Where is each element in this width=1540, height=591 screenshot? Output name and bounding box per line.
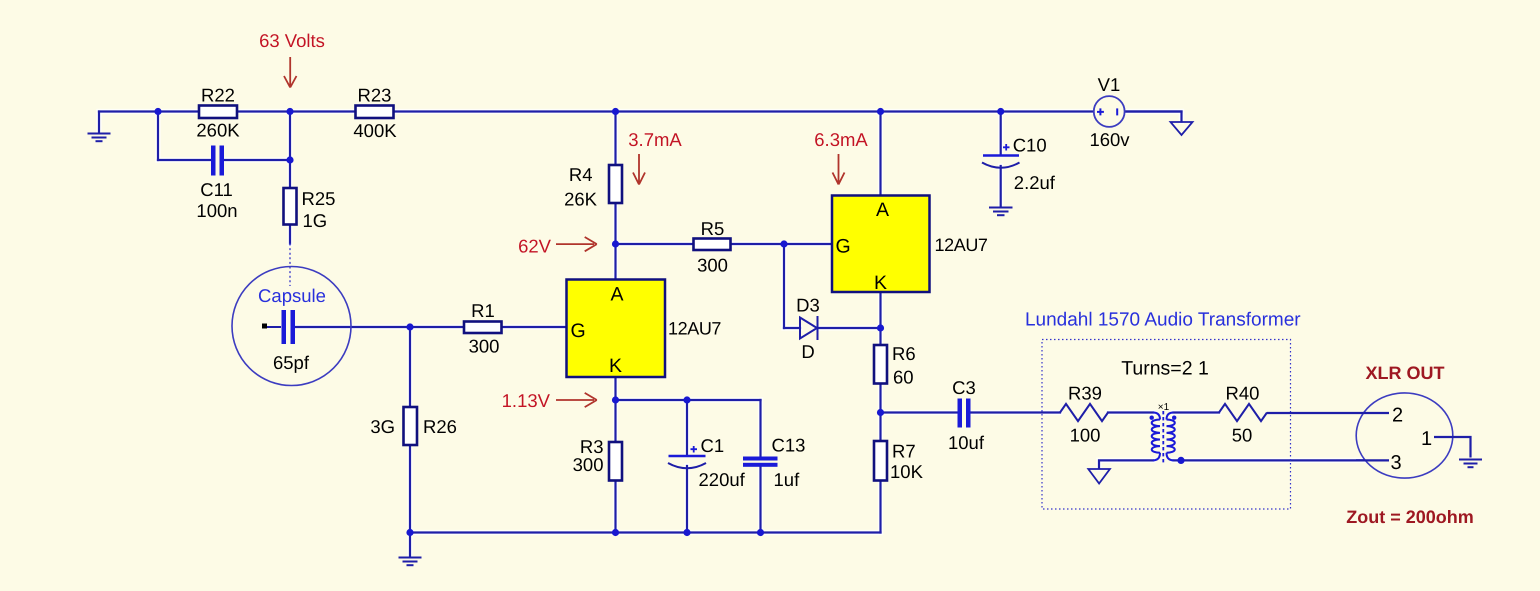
svg-text:R5: R5 (701, 218, 725, 239)
svg-text:60: 60 (893, 367, 914, 388)
node D rail U2 (877, 108, 884, 115)
node E rail C10 (997, 108, 1004, 115)
wire C3 to R39 (971, 411, 1061, 413)
resistor R40 (1219, 383, 1267, 446)
svg-text:K: K (874, 272, 887, 294)
wire transformer to R40 (1174, 411, 1220, 413)
resistor R6 (874, 343, 916, 388)
wire C13 top (759, 400, 761, 457)
wire capsule to R1 (296, 326, 465, 328)
capsule terminal square (262, 324, 267, 329)
capacitor C10 electrolytic (982, 135, 1056, 194)
svg-text:10uf: 10uf (948, 432, 985, 453)
annotation 62V (518, 236, 597, 257)
svg-text:300: 300 (469, 336, 500, 357)
node I R5 U2G (780, 240, 787, 247)
ground triangle top right (1171, 122, 1193, 135)
wire C10 bottom (1000, 166, 1002, 206)
resistor R3 (573, 436, 622, 481)
capacitor C13 (743, 435, 805, 491)
svg-text:6.3mA: 6.3mA (814, 129, 868, 150)
wire diode to node J (818, 327, 881, 329)
transformer phase dot right (1172, 416, 1176, 420)
wire bottom rail (410, 531, 881, 533)
svg-text:G: G (836, 236, 851, 258)
wire R3 to bottom rail (614, 481, 616, 533)
svg-text:R7: R7 (892, 441, 916, 462)
wire XLR pin3 lead (1356, 459, 1389, 461)
decorative white halo under wires (89, 112, 1390, 566)
resistor R39 (1060, 383, 1108, 446)
svg-text:1.13V: 1.13V (502, 390, 551, 411)
svg-text:K: K (609, 355, 622, 377)
annotation 63 Volts (259, 30, 325, 88)
svg-text:10K: 10K (890, 461, 924, 482)
svg-text:R39: R39 (1068, 383, 1102, 404)
capacitor C3 (948, 377, 985, 453)
wire U2 K down (879, 292, 881, 345)
wire V1 right to ground (1125, 112, 1182, 122)
svg-text:3G: 3G (370, 416, 395, 437)
wire XLR pin2 lead (1267, 412, 1389, 414)
svg-text:260K: 260K (196, 120, 240, 141)
wire left ground stub (98, 112, 100, 133)
wire U2 A up (879, 112, 881, 196)
wire node B drop (289, 112, 291, 161)
svg-text:62V: 62V (518, 236, 552, 257)
node J U2K diode (877, 324, 884, 331)
resistor R5 (694, 218, 731, 276)
wire R26 to bottom rail (409, 445, 411, 533)
svg-text:300: 300 (573, 454, 604, 475)
svg-text:400K: 400K (353, 120, 397, 141)
wire C10 top (1000, 112, 1002, 155)
wire R1 to U1 G (502, 326, 568, 328)
svg-text:D3: D3 (796, 295, 820, 316)
ground earth bottom (400, 558, 421, 566)
wire C11 branch right (224, 159, 290, 161)
ground earth C10 (990, 208, 1012, 216)
wire top rail (99, 110, 1182, 112)
svg-text:R6: R6 (892, 343, 916, 364)
node bottom rail C1 (683, 529, 690, 536)
wire R4 top to rail (614, 112, 616, 166)
resistor R1 (464, 300, 502, 357)
wire C13 bottom (759, 467, 761, 533)
junction dot transformer secondary (1177, 457, 1184, 464)
svg-text:R26: R26 (423, 416, 457, 437)
svg-text:12AU7: 12AU7 (935, 235, 988, 255)
svg-text:Lundahl 1570 Audio Transformer: Lundahl 1570 Audio Transformer (1025, 310, 1301, 331)
XLR connector circle (1267, 393, 1482, 478)
wire R6 to node K (879, 384, 881, 442)
wire U1 K down (614, 377, 616, 442)
wire node A drop (157, 112, 159, 161)
node bottom rail left (406, 529, 413, 536)
svg-text:R22: R22 (201, 85, 235, 106)
svg-text:3: 3 (1390, 452, 1401, 474)
node L 1.13V (612, 396, 619, 403)
wire transformer secondary bottom left (1099, 460, 1153, 468)
svg-text:C1: C1 (701, 435, 725, 456)
transformer core dashed line (1162, 411, 1164, 464)
capacitor element 65pf (282, 310, 287, 344)
svg-text:2.2uf: 2.2uf (1014, 172, 1056, 193)
svg-text:65pf: 65pf (273, 352, 310, 373)
resistor R22 (196, 85, 240, 141)
dotted lead R25 to capsule (289, 244, 291, 287)
svg-text:A: A (876, 199, 889, 221)
wire C1 bottom (686, 466, 688, 533)
svg-text:C10: C10 (1013, 135, 1047, 156)
svg-text:R25: R25 (302, 188, 336, 209)
resistor R26 (370, 407, 457, 445)
annotation 3.7mA (628, 129, 682, 185)
svg-text:R23: R23 (358, 85, 392, 106)
wire R7 to bottom rail (879, 481, 881, 533)
voltage source V1 (1089, 74, 1130, 150)
wire F to R25 (289, 160, 291, 188)
svg-text:R40: R40 (1226, 383, 1260, 404)
svg-text:V1: V1 (1098, 74, 1121, 95)
resistor R23 (353, 85, 397, 142)
svg-text:×1: ×1 (1158, 402, 1170, 413)
wire node I to diode (784, 327, 800, 329)
wire node K to C3 (881, 411, 958, 413)
resistor R25 (284, 188, 336, 231)
svg-text:1G: 1G (303, 210, 328, 231)
node K R6 C3 (877, 409, 884, 416)
node A (154, 108, 161, 115)
annotation 1.13V (502, 390, 597, 411)
svg-text:A: A (610, 284, 623, 306)
wire node G vertical (409, 327, 411, 407)
ground earth left (89, 134, 110, 142)
node M C1 top (683, 396, 690, 403)
svg-text:1uf: 1uf (774, 469, 801, 490)
capacitor C1 electrolytic (668, 435, 746, 490)
svg-text:C11: C11 (200, 179, 233, 200)
annotation 6.3mA (814, 129, 868, 185)
op-amp U1 triode 12AU7 left (567, 280, 722, 378)
svg-text:160v: 160v (1089, 129, 1130, 150)
svg-text:220uf: 220uf (699, 469, 746, 490)
svg-text:63 Volts: 63 Volts (259, 30, 325, 51)
node bottom rail C13 (757, 529, 764, 536)
svg-text:XLR OUT: XLR OUT (1366, 363, 1445, 383)
svg-text:100: 100 (1070, 425, 1101, 446)
svg-text:Capsule: Capsule (258, 285, 326, 306)
svg-text:R4: R4 (569, 164, 593, 185)
svg-text:R1: R1 (471, 300, 495, 321)
node C rail R4 (612, 108, 619, 115)
ground earth XLR (1459, 460, 1482, 468)
wire XLR pin1 to ground (1434, 437, 1471, 458)
wire U1 A up (614, 244, 616, 280)
capacitor C11 (196, 146, 237, 222)
wire R39 to transformer (1108, 411, 1153, 413)
op-amp U2 triode 12AU7 right (832, 196, 988, 295)
node H 62V (612, 240, 619, 247)
wire R5 to U2 G (731, 243, 833, 245)
resistor R7 (874, 441, 924, 483)
transformer phase dot left (1150, 416, 1154, 420)
wire node H to R5 (616, 243, 694, 245)
node F C11 R25 (286, 156, 293, 163)
node B 63V (286, 108, 293, 115)
transformer dotted boundary box (1042, 340, 1291, 510)
capsule circle (232, 267, 351, 386)
diode D3 (796, 295, 820, 363)
svg-text:D: D (801, 341, 814, 362)
svg-text:12AU7: 12AU7 (668, 319, 721, 339)
ground triangle transformer (1088, 469, 1110, 484)
svg-text:3.7mA: 3.7mA (628, 129, 682, 150)
svg-text:C3: C3 (952, 377, 976, 398)
svg-text:Turns=2 1: Turns=2 1 (1121, 358, 1209, 380)
svg-text:300: 300 (697, 255, 728, 276)
svg-text:1: 1 (1421, 428, 1432, 450)
wire node I drop (783, 244, 785, 328)
wire node L horizontal (616, 399, 761, 401)
node G capsule R26 (406, 323, 413, 330)
svg-text:G: G (571, 320, 586, 342)
svg-text:26K: 26K (564, 189, 598, 210)
wire R25 bottom (289, 225, 291, 244)
svg-text:C13: C13 (772, 435, 806, 456)
wire R4 bottom (614, 203, 616, 244)
svg-text:2: 2 (1392, 405, 1403, 427)
wire transformer bottom to XLR pin3 (1174, 459, 1390, 461)
wire C11 branch left (158, 159, 211, 161)
wire bottom ground stub (409, 533, 411, 557)
resistor R4 (564, 164, 622, 210)
svg-text:Zout = 200ohm: Zout = 200ohm (1346, 507, 1474, 527)
node bottom rail R3 (612, 529, 619, 536)
svg-text:50: 50 (1232, 425, 1253, 446)
transformer T1 windings (1152, 413, 1175, 461)
capsule lead (267, 326, 281, 328)
svg-text:100n: 100n (196, 200, 237, 221)
wire C1 top (686, 400, 688, 455)
